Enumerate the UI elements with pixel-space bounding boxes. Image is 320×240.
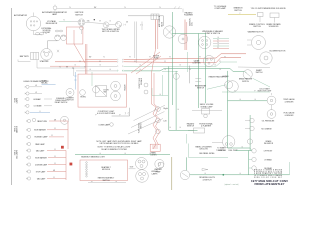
wire label (103, 56, 104, 58)
wire blue dimmer (42, 84, 56, 86)
cigar lighter (204, 56, 215, 67)
svg-text:G: G (217, 37, 218, 39)
svg-text:OIL PRESSURE: OIL PRESSURE (262, 120, 275, 122)
svg-text:LH FRONT: LH FRONT (264, 151, 272, 153)
svg-text:SEE PANEL DETAIL: SEE PANEL DETAIL (199, 152, 215, 155)
wiper motor M1 (116, 22, 122, 28)
svg-text:G: G (179, 127, 180, 129)
svg-text:R: R (53, 177, 54, 179)
svg-text:G: G (109, 69, 110, 71)
wire green fp v (248, 151, 250, 175)
wire label (69, 7, 70, 9)
label ignition coil (190, 18, 194, 26)
svg-text:& DOOR SWITCHES: & DOOR SWITCHES (97, 113, 116, 115)
lamp park 3 (26, 135, 64, 138)
svg-text:R: R (224, 56, 225, 58)
wire label (179, 127, 180, 129)
junction dot (94, 19, 95, 20)
wire diag 3 (128, 119, 163, 135)
wire courtesy right (222, 91, 270, 93)
wire label (124, 7, 125, 9)
fuse block F1 (151, 14, 159, 20)
svg-text:Left: Left (164, 119, 167, 122)
lamp park 4 (26, 142, 45, 145)
ignition switch S1 (78, 19, 85, 30)
label rotated park (14, 125, 19, 133)
fuel gauge (267, 110, 276, 119)
label courtesy (104, 90, 110, 94)
svg-text:G: G (189, 69, 190, 71)
wire fuel pump left (212, 141, 223, 143)
svg-text:G: G (109, 20, 110, 22)
courtesy switch S6 (93, 86, 100, 93)
wire green v172 (171, 12, 173, 105)
svg-text:G: G (159, 94, 160, 96)
svg-text:R: R (217, 40, 218, 42)
svg-text:R: R (54, 163, 55, 165)
svg-text:FROM LATE BENTLEY: FROM LATE BENTLEY (255, 182, 285, 186)
wire switch run (109, 23, 115, 25)
washer motor M2 (247, 36, 266, 50)
red square b (70, 163, 73, 166)
svg-text:SWITCH: SWITCH (197, 88, 205, 90)
wire starter run (37, 60, 85, 68)
svg-text:GR: GR (53, 170, 55, 172)
svg-text:& SWITCH: & SWITCH (203, 179, 212, 181)
junction marks mid (66, 66, 73, 68)
wire row1 red left (85, 59, 117, 61)
wire yellow od (228, 14, 256, 16)
od switch box (258, 13, 264, 17)
lamp dome (109, 123, 114, 127)
wire green v187 (187, 52, 189, 72)
svg-text:Right: Right (164, 107, 169, 110)
connector row1 (118, 59, 124, 61)
label inline fuse (153, 56, 160, 60)
lighting switch S2 (103, 22, 109, 28)
wire red left vertical (67, 121, 69, 149)
svg-text:SIGNAL LAMP: SIGNAL LAMP (201, 105, 214, 108)
horn low circle (225, 81, 233, 89)
label horn relay (41, 81, 48, 85)
svg-text:G: G (177, 109, 178, 111)
wire label (235, 90, 236, 92)
label dome lamp (99, 124, 111, 127)
svg-text:G: G (214, 65, 215, 67)
svg-text:G: G (99, 65, 100, 67)
svg-text:R: R (199, 56, 200, 58)
wire label (255, 90, 256, 92)
lamp beam row2 (25, 92, 42, 95)
svg-text:SOLENOID: SOLENOID (269, 26, 279, 28)
brake failure circle (243, 70, 252, 79)
lamp turn e (156, 129, 161, 134)
svg-text:R: R (194, 61, 195, 63)
svg-text:& SENDER: & SENDER (285, 101, 294, 103)
svg-text:SW: SW (104, 92, 107, 94)
wire red turn verticals (152, 73, 155, 104)
wire green h33 (172, 33, 205, 35)
svg-text:BATTERY: BATTERY (20, 55, 30, 58)
wire diag 1 (134, 105, 166, 120)
label starter (40, 60, 49, 63)
lamp rh rear (252, 166, 273, 170)
svg-text:N: N (84, 67, 85, 69)
svg-text:SWITCH: SWITCH (102, 180, 110, 182)
svg-text:U: U (46, 83, 47, 85)
svg-text:SWITCH: SWITCH (66, 100, 74, 102)
wire row3 green right (124, 62, 238, 66)
svg-text:N: N (124, 7, 125, 9)
wire label (149, 153, 150, 155)
purge component (188, 128, 205, 133)
svg-text:SEATBELT WARNING LIGHT: SEATBELT WARNING LIGHT (81, 156, 106, 159)
connector bundle rows (213, 39, 229, 49)
wire label (214, 65, 215, 67)
wire label (159, 94, 160, 96)
label brake failure (239, 78, 253, 83)
wire blue vertical (74, 72, 76, 90)
wire label (54, 156, 55, 158)
svg-text:FLASHER: FLASHER (184, 14, 193, 17)
label wiper motor (101, 29, 120, 33)
wire label (219, 69, 220, 71)
svg-text:HORN: HORN (80, 97, 86, 99)
svg-text:P: P (255, 90, 256, 92)
label dimmer (66, 98, 74, 102)
svg-text:SWITCH: SWITCH (253, 26, 261, 28)
svg-text:G: G (239, 173, 240, 175)
label fuel pump (216, 150, 227, 152)
lamp turn c (156, 107, 161, 112)
svg-text:G: G (99, 153, 100, 155)
svg-text:U: U (39, 111, 40, 113)
wire label (217, 47, 218, 49)
lamp head 3 (25, 111, 50, 114)
lamp no oil (250, 126, 273, 130)
wire label (84, 67, 85, 69)
svg-text:COIL: COIL (192, 22, 194, 26)
svg-text:N: N (159, 7, 160, 9)
label ignition switch (75, 12, 84, 16)
svg-text:Y: Y (240, 13, 241, 15)
label blower motor (270, 51, 286, 53)
wire alternator drop (34, 31, 43, 35)
label to smart (217, 147, 226, 152)
wire label (164, 61, 165, 63)
svg-text:R: R (54, 156, 55, 158)
label panel box (150, 151, 157, 156)
wire red zigzag (152, 104, 160, 149)
svg-text:N: N (45, 33, 46, 35)
svg-text:N: N (69, 7, 70, 9)
label horn button (80, 97, 86, 99)
wire label (239, 99, 240, 101)
wire label (99, 61, 100, 63)
svg-text:PUMP: PUMP (156, 171, 162, 173)
wire label (139, 65, 140, 67)
seatbelt connector pins (86, 162, 88, 177)
wire label (59, 67, 60, 69)
svg-text:R: R (54, 149, 55, 151)
wire green diag heater (207, 85, 226, 89)
caption seatbelt (98, 146, 132, 151)
wire courtesy (112, 108, 130, 116)
wire row4 green main (76, 69, 244, 72)
wire label (54, 149, 55, 151)
svg-text:HORNS: HORNS (123, 85, 125, 92)
svg-text:MODULE: MODULE (102, 169, 111, 171)
wire gauge link (271, 105, 273, 110)
horn button S5 (80, 90, 86, 96)
wire label (89, 56, 92, 58)
svg-text:G: G (139, 69, 140, 71)
wire green L bottom (152, 88, 168, 96)
label flasher relay (55, 97, 68, 104)
svg-text:REGULATOR: REGULATOR (46, 22, 58, 25)
temp gauge (267, 93, 276, 105)
svg-text:G: G (149, 153, 150, 155)
wire red box out (74, 44, 85, 63)
svg-text:SIDE MARKER: SIDE MARKER (35, 156, 47, 159)
svg-text:LICENSE LAMP: LICENSE LAMP (35, 163, 48, 166)
wire row2 red left (55, 61, 117, 63)
wire label (54, 163, 55, 165)
label hazard flasher (184, 12, 193, 17)
svg-text:DELAY IN SEATBELT SYSTEM: DELAY IN SEATBELT SYSTEM (101, 148, 127, 151)
wire label (124, 153, 125, 155)
green junction dot (222, 174, 224, 176)
connector row4 (118, 70, 124, 72)
wire label (179, 65, 180, 67)
label external source socket (42, 27, 52, 34)
arrow symbol (202, 169, 208, 171)
connector wiper out (140, 24, 142, 26)
svg-text:G: G (74, 65, 75, 67)
svg-text:SWITCH: SWITCH (75, 14, 83, 16)
label purge signal (199, 122, 212, 127)
svg-text:RELAY SWITCH: RELAY SWITCH (55, 101, 68, 104)
svg-text:N: N (103, 56, 104, 58)
pink box seatbelt (80, 160, 128, 181)
wire ignition feed (71, 20, 78, 22)
khaki vertical (171, 157, 173, 190)
wire label (53, 170, 55, 172)
svg-text:R: R (79, 61, 80, 63)
label rotated headlamps (14, 97, 19, 103)
svg-text:& FLASHER: & FLASHER (201, 125, 212, 128)
label luggage lamp (214, 5, 227, 10)
wire label (53, 177, 54, 179)
flasher unit box (202, 109, 210, 118)
battery B1 (31, 53, 39, 60)
svg-text:R: R (134, 61, 135, 63)
label turn rotated b (138, 122, 143, 134)
heater sw circle (227, 81, 239, 93)
wire battery ground (18, 60, 31, 62)
wire regulator-ignition green (59, 20, 71, 22)
svg-text:TAIL LAMP: TAIL LAMP (36, 149, 45, 152)
svg-text:G: G (219, 69, 220, 71)
wire row2 red right (124, 57, 242, 62)
wire label (139, 69, 140, 71)
connector row3 (118, 65, 124, 67)
wire green v198 (197, 34, 199, 109)
wire green v205 (205, 34, 207, 104)
svg-text:N: N (217, 42, 218, 44)
wire label (194, 61, 195, 63)
label left (164, 119, 167, 122)
svg-text:COMP LAMP: COMP LAMP (214, 7, 226, 10)
wire green v250 (249, 115, 251, 151)
lamp tail 2 (26, 156, 66, 159)
border frame left (11, 8, 13, 185)
svg-text:SWITCH: SWITCH (256, 72, 263, 74)
svg-text:DOME LAMP: DOME LAMP (99, 124, 111, 127)
horn relay box (96, 86, 107, 97)
wire label (217, 37, 218, 39)
wire label (109, 20, 110, 22)
wire label (204, 173, 205, 175)
svg-text:RH REAR: RH REAR (264, 167, 272, 170)
wire label (159, 7, 160, 9)
label optional note (225, 183, 239, 186)
wire between clusters (129, 166, 136, 169)
wire diag 2 (131, 112, 165, 128)
wire red right vertical C (65, 151, 67, 181)
label panel flasher (195, 145, 212, 150)
svg-text:HORNS: HORNS (222, 76, 229, 78)
svg-text:WASHER MOTOR: WASHER MOTOR (248, 31, 264, 34)
wire label (54, 119, 56, 121)
svg-text:G: G (239, 99, 240, 101)
svg-text:& SENDER: & SENDER (285, 115, 294, 117)
svg-text:PARK/TURN: PARK/TURN (37, 120, 47, 123)
lamp turn b (144, 90, 148, 94)
label wiper washer (248, 31, 264, 34)
svg-text:P: P (96, 114, 97, 116)
connector row2 (118, 61, 124, 63)
horn H2 (111, 91, 121, 101)
wire ignition drop (81, 30, 83, 34)
svg-text:P: P (235, 90, 236, 92)
svg-text:SWITCH: SWITCH (187, 126, 195, 128)
steering column connector (199, 36, 211, 48)
label smog lamp (200, 104, 214, 108)
svg-text:SWITCH: SWITCH (242, 81, 249, 83)
wire green to smart (244, 71, 247, 72)
svg-text:PARK LAMP: PARK LAMP (35, 143, 45, 146)
rear cluster circle 2 (136, 170, 149, 183)
pink box horn (78, 74, 127, 107)
horn H1 (111, 81, 121, 91)
wire green reverse v (185, 157, 187, 170)
svg-text:R: R (99, 61, 100, 63)
label smart switch (256, 69, 263, 74)
svg-text:R: R (217, 47, 218, 49)
svg-text:SOCKET: SOCKET (43, 32, 52, 34)
label od switch (251, 8, 267, 10)
svg-text:G: G (217, 45, 218, 47)
heater blower M3 (260, 52, 272, 64)
svg-text:G: G (204, 173, 205, 175)
wire label (241, 146, 242, 148)
label temp gauge (283, 98, 295, 103)
svg-text:N: N (59, 67, 60, 69)
label heater fan (195, 84, 207, 89)
label alternator (14, 14, 28, 17)
wire label (74, 65, 75, 67)
svg-text:FRONT TURN: FRONT TURN (139, 77, 141, 88)
wire starter link (73, 68, 75, 76)
wire red verticals top (156, 20, 158, 50)
wire red in box (73, 30, 75, 44)
wire label (219, 61, 220, 63)
lamp tail 4 (26, 170, 66, 173)
svg-text:R: R (51, 135, 52, 137)
lamp L1 alternator warning (53, 5, 57, 12)
svg-text:UNITS SIMILAR. SEE TEXT FOR FU: UNITS SIMILAR. SEE TEXT FOR FULL DETAILS (100, 142, 139, 145)
label reverse lights (199, 177, 215, 181)
wire top run (57, 8, 182, 10)
wire green v168 (168, 66, 170, 130)
label voltage regulator (46, 20, 58, 25)
wire alternator stub (33, 13, 35, 17)
lamp turn a (144, 83, 148, 87)
wire green right edge (289, 162, 291, 175)
title block (251, 179, 288, 186)
wiper park circle (155, 159, 164, 168)
label overdrive solenoid (264, 8, 286, 10)
label beam indicator (24, 80, 50, 83)
lamp head 2 (25, 104, 52, 107)
brake switch circle (158, 162, 164, 168)
wire label (134, 61, 135, 63)
svg-text:R: R (149, 56, 150, 58)
wire label (177, 109, 178, 111)
svg-text:INDICATOR: INDICATOR (264, 142, 274, 145)
fuel pump (223, 136, 235, 148)
svg-text:U BLUE W WHITE Y YELLOW: U BLUE W WHITE Y YELLOW (254, 173, 283, 175)
connector brackets starter (57, 50, 59, 52)
svg-text:R: R (54, 128, 55, 130)
svg-text:R: R (164, 61, 165, 63)
svg-text:G: G (254, 99, 255, 101)
distributor (178, 34, 188, 44)
svg-text:LO BEAM: LO BEAM (34, 105, 42, 108)
wire label (39, 111, 40, 113)
od solenoid box (270, 13, 279, 18)
wire green diag brake (253, 78, 270, 87)
wire label (217, 45, 218, 47)
wire ignition red drop (85, 44, 87, 74)
connector courtesy (125, 112, 129, 114)
wire label (199, 56, 200, 58)
wire label (217, 42, 218, 44)
wire label (99, 65, 100, 67)
label cold start (258, 87, 272, 92)
lamp head 1 (25, 97, 52, 100)
red square a (61, 146, 64, 149)
wire od drops (260, 17, 275, 23)
starter M4 (41, 49, 53, 61)
pink box panel (150, 144, 160, 151)
svg-text:SIDE MARKER: SIDE MARKER (34, 129, 46, 132)
svg-text:LH REAR: LH REAR (264, 158, 272, 161)
wire label (46, 83, 47, 85)
label fuel pump2 (228, 150, 237, 152)
wire label (239, 173, 240, 175)
